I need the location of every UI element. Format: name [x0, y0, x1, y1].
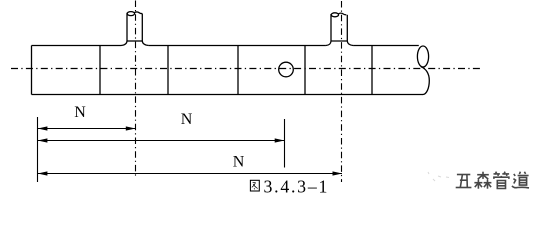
svg-text:N: N: [233, 154, 245, 171]
svg-text:N: N: [74, 104, 86, 121]
svg-text:N: N: [181, 111, 193, 128]
svg-text:3.4.3–1: 3.4.3–1: [264, 177, 330, 197]
